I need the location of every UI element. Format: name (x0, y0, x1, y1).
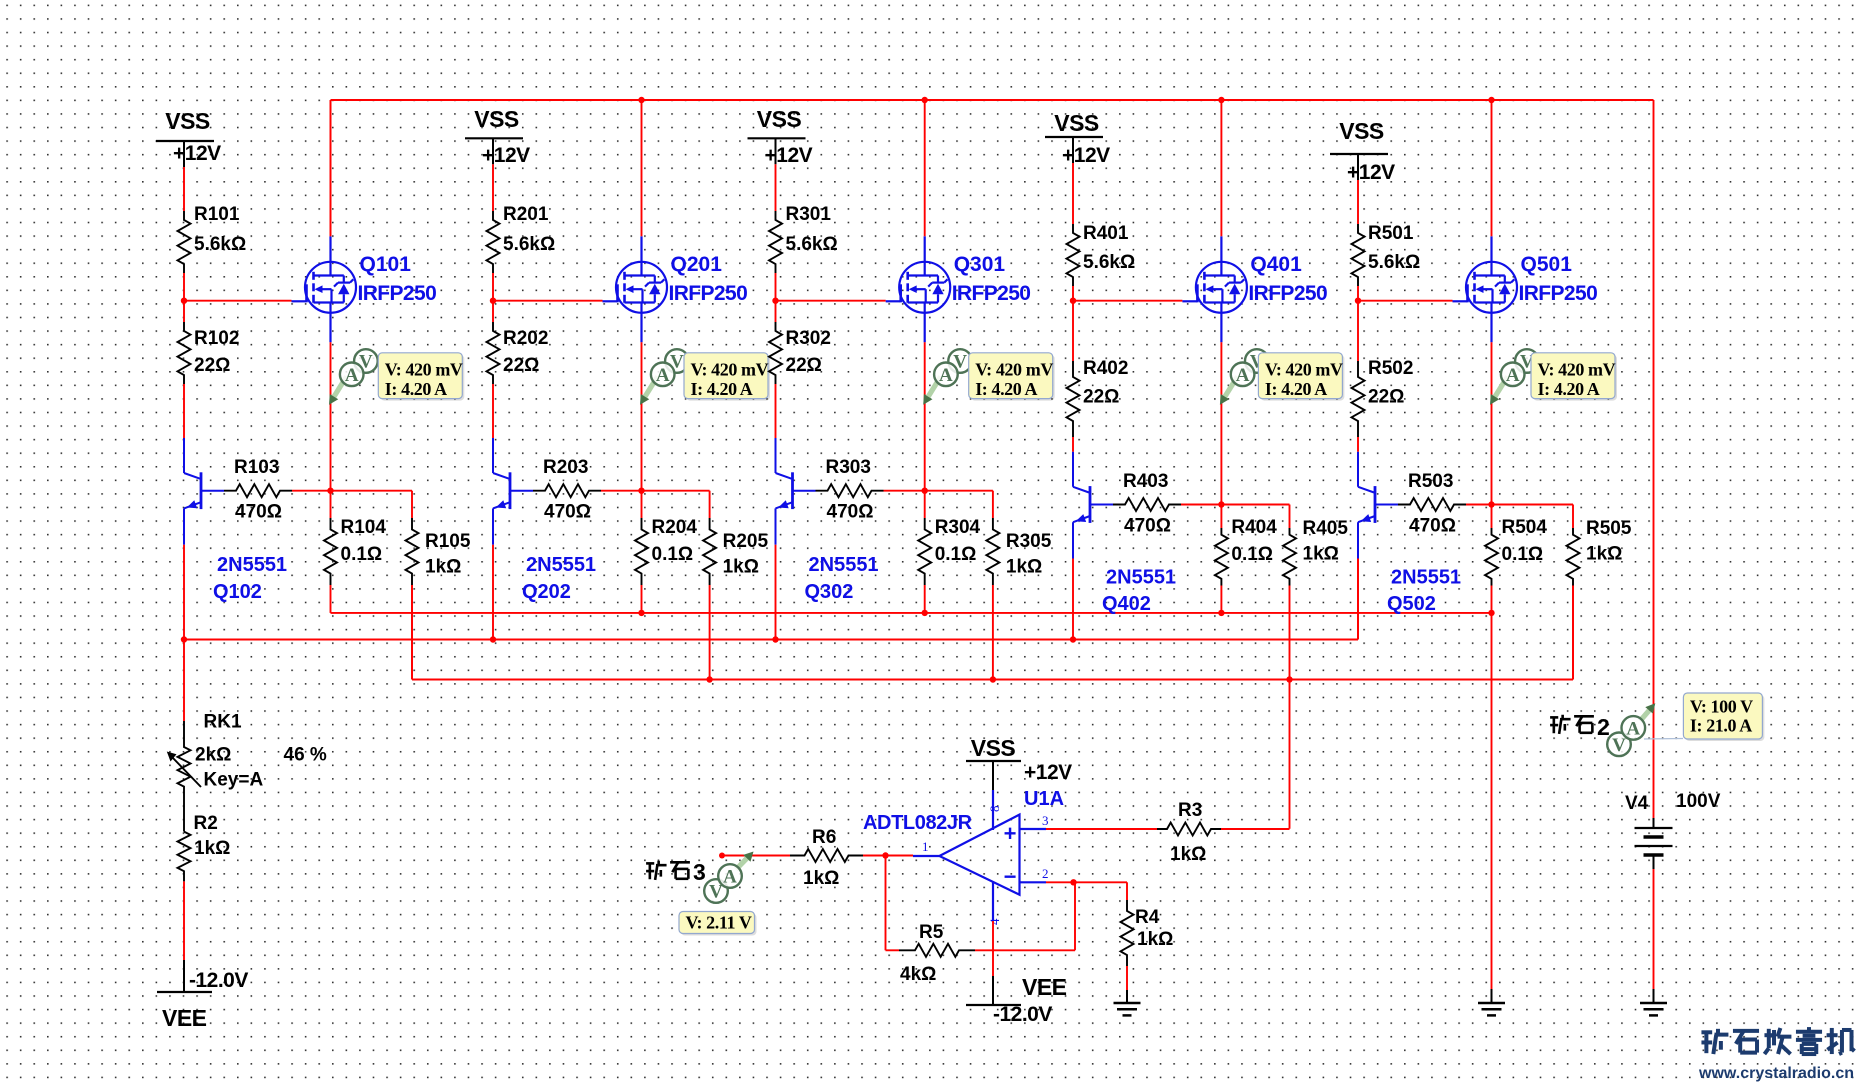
wire R501 to gate node (1357, 286, 1359, 301)
svg-text:R503: R503 (1408, 471, 1453, 492)
junction gate node 20 (490, 298, 496, 304)
wire opamp V- pin to VEE (992, 921, 994, 976)
resistor R404 (1215, 517, 1277, 586)
svg-text:Q101: Q101 (360, 253, 412, 276)
wire R204 to return bus (641, 585, 643, 613)
wire R205 to sense bus (709, 585, 711, 680)
power flag VSS (op-amp) (966, 735, 1072, 790)
svg-text:Q102: Q102 (213, 581, 262, 603)
svg-text:3: 3 (693, 859, 706, 885)
wire source node to sense corner 50 (1492, 505, 1574, 529)
power flag VSS stage 20 (465, 106, 530, 167)
svg-text:+12V: +12V (1062, 144, 1110, 167)
svg-text:0.1Ω: 0.1Ω (652, 544, 694, 565)
svg-text:I: 4.20 A: I: 4.20 A (1538, 379, 1600, 399)
junction sense bus stage3 (990, 676, 996, 682)
svg-text:−: − (1004, 864, 1017, 889)
svg-text:R403: R403 (1123, 471, 1168, 492)
svg-text:1kΩ: 1kΩ (723, 557, 759, 578)
svg-text:IRFP250: IRFP250 (1248, 282, 1327, 305)
svg-text:Key=A: Key=A (204, 770, 264, 791)
resistor R401 (1067, 223, 1136, 286)
junction emitter bus stage2 (490, 636, 496, 642)
transistor Q102 2N5551 (184, 438, 287, 603)
resistor R3 (1157, 800, 1221, 865)
svg-text:4: 4 (987, 918, 1002, 925)
resistor R203 (533, 457, 601, 523)
probe label 探针2 (1550, 714, 1610, 740)
svg-text:Q501: Q501 (1521, 253, 1573, 276)
svg-text:-12.0V: -12.0V (189, 969, 248, 992)
wire R401 to gate node (1072, 286, 1074, 301)
svg-text:V: 420 mV: V: 420 mV (1538, 360, 1616, 380)
svg-text:R4: R4 (1135, 907, 1160, 928)
wire emitter stage 30 (775, 545, 777, 640)
svg-text:1kΩ: 1kΩ (1170, 844, 1206, 865)
svg-text:R303: R303 (826, 457, 871, 478)
wire source stage 50 (1491, 342, 1493, 504)
svg-text:I: 21.0 A: I: 21.0 A (1690, 716, 1752, 736)
junction source node 30 (922, 488, 928, 494)
svg-text:1kΩ: 1kΩ (194, 838, 230, 859)
potentiometer RK1 2k (167, 712, 327, 792)
svg-text:+12V: +12V (173, 142, 221, 165)
voltage source V4 100V (1625, 791, 1721, 869)
svg-text:0.1Ω: 0.1Ω (1502, 544, 1544, 565)
svg-text:R202: R202 (503, 328, 548, 349)
junction top bus stage4 (1218, 97, 1224, 103)
svg-text:4kΩ: 4kΩ (900, 964, 936, 985)
ground (below V4) (1640, 1003, 1667, 1015)
svg-text:1: 1 (922, 839, 929, 854)
junction inverting input node (1070, 879, 1076, 885)
wire emitter stage 40 (1072, 559, 1074, 640)
svg-text:0.1Ω: 0.1Ω (341, 544, 383, 565)
junction top bus stage2 (638, 97, 644, 103)
svg-text:Q502: Q502 (1387, 593, 1436, 615)
svg-text:2N5551: 2N5551 (217, 554, 287, 576)
transistor Q402 2N5551 (1073, 452, 1176, 615)
junction gate node 50 (1355, 298, 1361, 304)
svg-text:R6: R6 (812, 827, 836, 848)
svg-text:www.crystalradio.cn: www.crystalradio.cn (1698, 1065, 1854, 1082)
wire emitter bus right riser to Q502 (1357, 559, 1359, 640)
wire R305 to sense bus (992, 585, 994, 680)
wire base resistor to source node 50 (1466, 504, 1492, 506)
wire base resistor to source node 10 (292, 490, 331, 492)
transistor Q302 2N5551 (776, 438, 879, 603)
junction source node 20 (638, 488, 644, 494)
MOSFET Q501 IRFP250 (1453, 236, 1598, 342)
wire emitter stage 20 (492, 545, 494, 640)
junction return bus stage4 (1218, 610, 1224, 616)
svg-text:R502: R502 (1368, 358, 1413, 379)
svg-text:22Ω: 22Ω (1368, 387, 1404, 408)
svg-text:5.6kΩ: 5.6kΩ (1083, 252, 1135, 273)
resistor R105 (406, 518, 471, 585)
svg-text:1kΩ: 1kΩ (1586, 544, 1622, 565)
svg-text:2: 2 (1042, 866, 1049, 881)
svg-text:-12.0V: -12.0V (993, 1003, 1052, 1026)
wire R302 to Q302 collector (775, 384, 777, 438)
svg-text:+12V: +12V (482, 144, 530, 167)
wire R101 to gate node (183, 273, 185, 301)
svg-text:5.6kΩ: 5.6kΩ (194, 234, 246, 255)
wire drain stage 10 (330, 100, 332, 236)
svg-text:470Ω: 470Ω (544, 502, 591, 523)
wire VSS to R501 (1357, 180, 1359, 224)
wire R404 to return bus (1220, 586, 1222, 613)
wire R504 to return bus (1491, 586, 1493, 613)
svg-text:R203: R203 (543, 457, 588, 478)
svg-text:22Ω: 22Ω (194, 355, 230, 376)
svg-text:R302: R302 (786, 328, 831, 349)
wire emitter bus (Q102..Q502 emitters) (184, 639, 1358, 641)
wire source node to sense corner 10 (331, 491, 413, 518)
wire base resistor to source node 40 (1181, 504, 1221, 506)
junction return bus stage3 (922, 610, 928, 616)
MOSFET Q401 IRFP250 (1182, 236, 1327, 342)
svg-text:100V: 100V (1676, 791, 1721, 812)
wire source node to R104 (330, 491, 332, 518)
resistor R202 (487, 322, 549, 384)
wire R102 to Q102 collector (183, 384, 185, 438)
resistor R301 (769, 204, 838, 273)
wire stage1 drain drop (330, 100, 332, 236)
svg-text:IRFP250: IRFP250 (358, 282, 437, 305)
wire drain stage 40 (1220, 100, 1222, 236)
svg-text:5.6kΩ: 5.6kΩ (503, 234, 555, 255)
power flag VSS stage 40 (1045, 110, 1110, 167)
wire gate stage 20 (493, 300, 603, 302)
svg-text:R205: R205 (723, 531, 769, 552)
svg-text:R405: R405 (1303, 518, 1349, 539)
svg-text:1kΩ: 1kΩ (1006, 557, 1042, 578)
svg-text:V: 420 mV: V: 420 mV (1265, 360, 1343, 380)
svg-text:3: 3 (1042, 813, 1049, 828)
svg-text:V: 2.11 V: V: 2.11 V (686, 913, 752, 933)
probe V/I at Q301 source (923, 349, 1054, 405)
svg-text:VSS: VSS (971, 735, 1016, 761)
resistor R2 (178, 813, 231, 881)
wire VSS to R301 (775, 164, 777, 211)
svg-text:A: A (1236, 365, 1250, 386)
junction top bus stage3 (922, 97, 928, 103)
wire source stage 20 (641, 342, 643, 490)
junction sense bus node to R3 (1286, 676, 1292, 682)
svg-text:U1A: U1A (1024, 788, 1064, 810)
svg-text:A: A (939, 365, 953, 386)
probe V/I at Q401 source (1220, 349, 1345, 405)
svg-text:2N5551: 2N5551 (809, 554, 879, 576)
junction gate node 30 (772, 298, 778, 304)
wire sense bus right riser to R505 (1572, 586, 1574, 680)
probe 探针2 leader line (1644, 738, 1683, 741)
wire drain stage 30 (924, 100, 926, 236)
wire source node to sense corner 20 (642, 491, 710, 518)
wire source stage 10 (330, 342, 332, 490)
op-amp U1A ADTL082JR (863, 788, 1064, 925)
wire source stage 40 (1220, 342, 1222, 504)
svg-text:Q201: Q201 (671, 253, 723, 276)
wire source node to R504 (1491, 505, 1493, 529)
svg-text:R501: R501 (1368, 223, 1414, 244)
resistor R505 (1567, 518, 1632, 586)
svg-text:V: 420 mV: V: 420 mV (385, 360, 463, 380)
junction emitter bus stage1 (181, 636, 187, 642)
power flag VEE (op-amp) (966, 974, 1067, 1026)
wire sense bus left riser to R105 (411, 585, 413, 680)
svg-text:Q302: Q302 (805, 581, 854, 603)
svg-text:Q301: Q301 (954, 253, 1006, 276)
wire R304 to return bus (924, 585, 926, 613)
svg-text:IRFP250: IRFP250 (669, 282, 748, 305)
svg-text:R504: R504 (1502, 517, 1548, 538)
wire source stage 30 (924, 342, 926, 490)
svg-text:RK1: RK1 (204, 712, 242, 733)
svg-text:A: A (723, 867, 737, 888)
wire top drain bus (+V rail to all MOSFET drains) (331, 99, 1654, 101)
svg-text:22Ω: 22Ω (503, 355, 539, 376)
svg-text:R505: R505 (1586, 518, 1632, 539)
wire R505 to sense bus (1572, 586, 1574, 680)
svg-text:22Ω: 22Ω (1083, 387, 1119, 408)
wire probe3 node to R6 (719, 853, 790, 859)
wire sense node to R3 (1289, 680, 1291, 829)
svg-text:I: 4.20 A: I: 4.20 A (1265, 379, 1327, 399)
power flag VEE (left) (157, 960, 248, 1031)
wire gate stage 30 (776, 300, 886, 302)
wire R4 to ground (1126, 966, 1128, 1003)
watermark logo (1698, 1027, 1854, 1082)
svg-text:V: 100 V: V: 100 V (1690, 697, 1753, 717)
wire drain stage 50 (1491, 100, 1493, 236)
svg-text:470Ω: 470Ω (1124, 516, 1171, 537)
resistor R502 (1352, 358, 1414, 437)
svg-text:V: 420 mV: V: 420 mV (975, 360, 1053, 380)
wire base resistor to source node 30 (884, 490, 925, 492)
resistor R101 (178, 204, 247, 273)
svg-text:R404: R404 (1231, 517, 1277, 538)
wire VSS to R101 (183, 167, 185, 211)
probe label 探针3 (646, 859, 706, 885)
svg-text:22Ω: 22Ω (786, 355, 822, 376)
resistor R6 (790, 827, 863, 889)
svg-text:5.6kΩ: 5.6kΩ (786, 234, 838, 255)
svg-text:R402: R402 (1083, 358, 1128, 379)
wire R202 to Q202 collector (492, 384, 494, 438)
svg-text:ADTL082JR: ADTL082JR (863, 812, 973, 834)
svg-text:R2: R2 (194, 813, 218, 834)
svg-text:V: V (1612, 735, 1626, 756)
wire gate stage 40 (1073, 300, 1182, 302)
resistor R103 (224, 457, 292, 523)
wire RK1 to R2 (183, 791, 185, 832)
wire R5 to inverting input (975, 882, 1075, 950)
resistor R302 (769, 322, 831, 384)
svg-text:+: + (1004, 821, 1017, 846)
wire R105 to sense bus (411, 585, 413, 680)
transistor Q202 2N5551 (493, 438, 596, 603)
wire sense bus (R105..R505 bottoms) (412, 679, 1573, 681)
wire VSS to R401 (1072, 163, 1074, 224)
wire return bus to ground (1491, 613, 1493, 989)
MOSFET Q201 IRFP250 (603, 236, 748, 342)
junction gate node 40 (1070, 298, 1076, 304)
resistor R305 (986, 518, 1051, 585)
svg-text:1kΩ: 1kΩ (1137, 929, 1173, 950)
svg-text:R102: R102 (194, 328, 239, 349)
wire VSS to R201 (492, 164, 494, 211)
wire gate node to R402 (1072, 301, 1074, 361)
wire V4 positive column (1653, 100, 1655, 818)
junction source node 40 (1218, 501, 1224, 507)
svg-text:R304: R304 (935, 517, 981, 538)
svg-text:A: A (1626, 718, 1640, 739)
svg-text:470Ω: 470Ω (827, 502, 874, 523)
svg-text:IRFP250: IRFP250 (952, 282, 1031, 305)
junction return bus stage2 (638, 610, 644, 616)
svg-text:1kΩ: 1kΩ (803, 868, 839, 889)
svg-text:1kΩ: 1kΩ (425, 557, 461, 578)
svg-text:R104: R104 (341, 517, 387, 538)
svg-text:R401: R401 (1083, 223, 1129, 244)
svg-text:R305: R305 (1006, 531, 1052, 552)
resistor R201 (487, 204, 556, 273)
svg-text:8: 8 (987, 806, 1002, 813)
wire V4 to ground (1653, 869, 1655, 989)
resistor R504 (1485, 517, 1547, 586)
svg-text:A: A (345, 365, 359, 386)
power flag VSS stage 30 (748, 106, 813, 167)
svg-text:VEE: VEE (1022, 974, 1067, 1000)
resistor R204 (635, 517, 697, 585)
svg-text:R103: R103 (234, 457, 279, 478)
wire drain stage 20 (641, 100, 643, 236)
svg-text:2N5551: 2N5551 (1391, 567, 1461, 589)
svg-text:46 %: 46 % (284, 745, 327, 766)
resistor R402 (1067, 358, 1129, 437)
probe V/I at Q201 source (640, 349, 770, 405)
resistor R205 (703, 518, 768, 585)
resistor R102 (178, 322, 240, 384)
resistor R303 (816, 457, 884, 523)
svg-text:R105: R105 (425, 531, 471, 552)
svg-text:5.6kΩ: 5.6kΩ (1368, 252, 1420, 273)
wire gate node to R102 (183, 301, 185, 322)
wire + input to R3 (1046, 828, 1157, 830)
svg-text:R204: R204 (652, 517, 698, 538)
svg-text:I: 4.20 A: I: 4.20 A (975, 379, 1037, 399)
wire gate stage 50 (1358, 300, 1453, 302)
MOSFET Q101 IRFP250 (292, 236, 437, 342)
svg-text:Q401: Q401 (1250, 253, 1302, 276)
wire R104 to return bus (330, 585, 332, 613)
resistor R304 (918, 517, 980, 585)
resistor R501 (1352, 223, 1421, 286)
wire V4 ground lead (1653, 989, 1655, 1003)
junction top bus stage5 (1488, 97, 1494, 103)
svg-text:R5: R5 (919, 922, 944, 943)
svg-text:VSS: VSS (757, 106, 802, 132)
wire gate node to R302 (775, 301, 777, 322)
power flag VSS stage 10 (156, 108, 221, 167)
svg-text:R301: R301 (786, 204, 832, 225)
wire gate node to R502 (1357, 301, 1359, 361)
junction emitter bus stage3 (772, 636, 778, 642)
wire emitter bus to RK1 (183, 640, 185, 722)
resistor R403 (1113, 471, 1181, 537)
wire gate stage 10 (184, 300, 292, 302)
svg-text:A: A (656, 365, 670, 386)
wire R402 to Q402 collector (1072, 437, 1074, 452)
svg-text:0.1Ω: 0.1Ω (935, 544, 977, 565)
svg-text:470Ω: 470Ω (1409, 516, 1456, 537)
svg-text:VSS: VSS (165, 108, 210, 134)
MOSFET Q301 IRFP250 (886, 236, 1031, 342)
svg-text:+12V: +12V (1024, 761, 1072, 784)
svg-text:I: 4.20 A: I: 4.20 A (691, 379, 753, 399)
junction source node 50 (1488, 501, 1494, 507)
probe V/I at Q101 source (329, 349, 464, 405)
svg-text:I: 4.20 A: I: 4.20 A (385, 379, 447, 399)
wire R502 to Q502 collector (1357, 437, 1359, 452)
svg-text:0.1Ω: 0.1Ω (1231, 544, 1273, 565)
probe V/I at Q501 source (1490, 349, 1617, 405)
svg-text:2N5551: 2N5551 (1106, 567, 1176, 589)
wire emitter stage 50 (1357, 559, 1359, 640)
svg-text:2N5551: 2N5551 (526, 554, 596, 576)
wire return bus ground lead (1491, 989, 1493, 1003)
svg-text:R101: R101 (194, 204, 240, 225)
wire source node to sense corner 40 (1221, 505, 1289, 529)
wire R3 to sense riser (1221, 828, 1290, 830)
svg-text:Q402: Q402 (1102, 593, 1151, 615)
svg-text:1kΩ: 1kΩ (1303, 544, 1339, 565)
junction source node 10 (327, 488, 333, 494)
svg-text:+12V: +12V (765, 144, 813, 167)
wire emitter stage 10 (183, 545, 185, 640)
svg-text:2: 2 (1597, 714, 1610, 740)
wire R405 to sense bus (1289, 586, 1291, 680)
svg-text:VSS: VSS (1339, 118, 1384, 144)
svg-text:IRFP250: IRFP250 (1519, 282, 1598, 305)
ground (return bus) (1478, 1003, 1505, 1015)
junction return bus stage5 (1488, 610, 1494, 616)
wire source-return bus (R104..R504 bottoms) (331, 612, 1492, 614)
svg-text:Q202: Q202 (522, 581, 571, 603)
svg-text:VSS: VSS (1054, 110, 1099, 136)
wire R301 to gate node (775, 273, 777, 301)
svg-text:R3: R3 (1178, 800, 1202, 821)
wire source node to R404 (1220, 505, 1222, 529)
junction feedback node (882, 852, 888, 858)
wire source node to R304 (924, 491, 926, 518)
svg-text:VEE: VEE (162, 1005, 207, 1031)
wire R201 to gate node (492, 273, 494, 301)
wire feedback node to R5 (886, 949, 900, 951)
probe 探针3 at R6 input (679, 852, 757, 936)
resistor R104 (324, 517, 386, 585)
junction gate node 10 (181, 298, 187, 304)
svg-text:A: A (1506, 365, 1520, 386)
junction emitter bus stage4 (1070, 636, 1076, 642)
wire feedback node down (885, 856, 887, 951)
resistor R5 (899, 922, 975, 985)
wire R2 to VEE (183, 881, 185, 960)
svg-text:V: 420 mV: V: 420 mV (691, 360, 769, 380)
svg-text:470Ω: 470Ω (235, 502, 282, 523)
